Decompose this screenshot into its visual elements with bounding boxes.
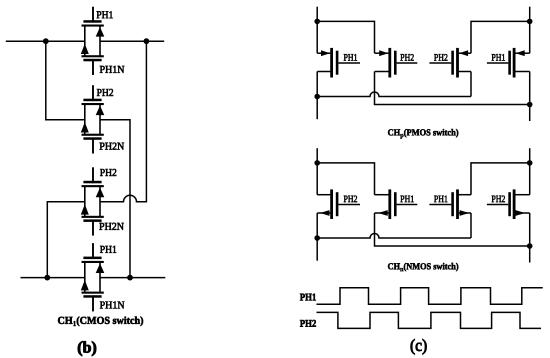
- label PH2 (clock waveform): [300, 320, 316, 327]
- wire PMOS row right port vertical (input node): [529, 7, 531, 54]
- wire top-right node to Qp3 drain: [471, 21, 530, 53]
- wire Qp3 source down to rail A: [470, 72, 472, 97]
- junction dot NMOS row top-right: [527, 160, 533, 166]
- gate label PH1 (Qn2): [400, 196, 413, 202]
- wire PMOS row left vertical bottom (output node): [316, 72, 318, 120]
- NMOS transistor Qn3 (gate PH1): [429, 189, 471, 219]
- gate label PH1 (Qn3): [434, 196, 447, 202]
- wire top-left node to Qn2 drain: [317, 163, 374, 195]
- label PH1 (TG1 top gate): [97, 11, 113, 18]
- wire TG3 left terminal down to node D (bottom left): [47, 202, 85, 278]
- CMOS transmission gate TG1 (PH1/PH1N): [81, 7, 105, 75]
- NMOS transistor Qn2 (gate PH1): [375, 189, 418, 219]
- caption CH1 (CMOS switch): [58, 317, 143, 327]
- caption CHp (PMOS switch): [388, 129, 458, 139]
- wire NMOS row right vertical bottom (output node): [529, 213, 531, 263]
- wire node B down to TG3 right terminal with hop over TG2 output wire: [100, 41, 146, 202]
- wire NMOS row left vertical bottom (output node): [316, 213, 318, 261]
- wire NMOS row left port vertical (input node): [316, 148, 318, 195]
- CMOS transmission gate TG4 (PH1/PH1N): [81, 243, 105, 311]
- junction dot NMOS row top-left: [314, 160, 320, 166]
- PMOS transistor Qp2 (gate PH2): [375, 48, 418, 78]
- wire NMOS row right port vertical (input node): [529, 148, 531, 195]
- wire node A down to TG2 left terminal: [46, 41, 85, 120]
- label PH2 (TG3 top gate): [100, 169, 116, 176]
- junction dot node D (bottom left): [44, 275, 50, 281]
- wire top-left node to Qp2 drain: [317, 21, 374, 53]
- wire TG2 right terminal down to node C (bottom right): [100, 120, 130, 278]
- label PH1 (TG4 top gate): [100, 246, 116, 253]
- gate label PH2 (Qn4): [492, 196, 505, 202]
- label PH2N (TG2 bottom gate): [100, 143, 124, 150]
- junction dot node A (top left): [43, 38, 49, 44]
- junction dot NMOS row bottom-right: [527, 243, 533, 249]
- junction dot PMOS row top-right: [527, 19, 533, 25]
- CMOS transmission gate TG2 (PH2/PH2N): [81, 85, 105, 153]
- junction dot PMOS row bottom-right: [527, 102, 533, 108]
- wire rail A (left output node to Q3 source) with hop over Q2 wire: [317, 92, 471, 97]
- gate label PH2 (Qp3): [434, 54, 447, 60]
- wire top-left input to TG1 left terminal: [6, 40, 85, 42]
- wire TG4 right terminal to bottom-right output: [100, 277, 165, 279]
- label PH1N (TG1 bottom gate): [100, 66, 124, 73]
- junction dot PMOS row top-left: [314, 19, 320, 25]
- label PH1 (clock waveform): [300, 294, 316, 301]
- NMOS transistor Qn1 (gate PH2): [317, 189, 360, 219]
- junction dot PMOS row bottom-left: [314, 94, 320, 100]
- gate label PH2 (Qn1): [344, 196, 357, 202]
- wire Qn3 source down to rail A: [470, 213, 472, 238]
- wire bottom-left to TG4 left terminal: [21, 277, 85, 279]
- wire TG1 right terminal to top-right: [100, 40, 164, 42]
- junction dot NMOS row bottom-left: [314, 235, 320, 241]
- junction dot node C (bottom right): [127, 275, 133, 281]
- wire PMOS row left port vertical (input node): [316, 7, 318, 54]
- PMOS transistor Qp1 (gate PH1): [317, 48, 360, 78]
- PMOS transistor Qp4 (gate PH1): [487, 48, 530, 78]
- label PH2N (TG3 bottom gate): [99, 223, 123, 230]
- label PH1N (TG4 bottom gate): [100, 301, 124, 308]
- NMOS transistor Qn4 (gate PH2): [487, 189, 530, 219]
- wire rail A (left output node to Q3 source) with hop over Q2 wire: [317, 234, 471, 239]
- subfigure label (c): [411, 339, 427, 354]
- caption CHn (NMOS switch): [388, 263, 458, 271]
- waveform PH1 clock: [317, 288, 543, 305]
- waveform PH2 clock: [317, 312, 542, 328]
- gate label PH1 (Qp1): [344, 54, 357, 60]
- wire Qp2 source down and along rail B to right output node: [375, 72, 530, 105]
- PMOS transistor Qp3 (gate PH2): [429, 48, 471, 78]
- label PH2 (TG2 top gate): [97, 89, 113, 96]
- wire top-right node to Qn3 drain: [471, 163, 530, 195]
- gate label PH1 (Qp4): [492, 54, 505, 60]
- junction dot node B (top right): [144, 38, 150, 44]
- wire PMOS row right vertical bottom (output node): [529, 72, 531, 122]
- gate label PH2 (Qp2): [400, 54, 413, 60]
- CMOS transmission gate TG3 (PH2/PH2N): [81, 167, 105, 235]
- subfigure label (b): [78, 341, 96, 356]
- wire Qn2 source down and along rail B to right output node: [375, 213, 530, 246]
